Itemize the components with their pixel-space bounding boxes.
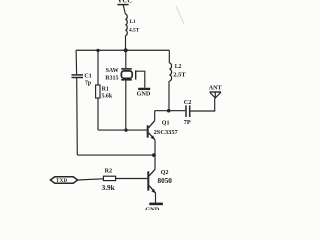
svg-text:2SC3357: 2SC3357	[154, 129, 179, 136]
wire L2 branch down	[168, 50, 170, 63]
svg-text:3.9k: 3.9k	[102, 184, 115, 192]
svg-text:L2: L2	[175, 64, 182, 70]
svg-text:C2: C2	[184, 99, 192, 106]
wire Q2 collector up	[154, 155, 156, 169]
svg-text:Q2: Q2	[161, 170, 169, 176]
resistor R1	[96, 85, 100, 98]
transistor Q2	[149, 169, 155, 176]
svg-text:8050: 8050	[158, 177, 173, 185]
svg-text:ANT: ANT	[209, 86, 222, 92]
Q2 emitter arrowhead	[151, 189, 155, 193]
node junction L1/top rail	[124, 48, 128, 52]
scan smudge	[176, 6, 184, 24]
svg-text:4.5T: 4.5T	[129, 28, 140, 34]
node junction emitter/lower rail	[152, 153, 156, 157]
antenna ANT	[210, 91, 221, 93]
wire R2 to Q2 base	[116, 178, 148, 180]
node junction L2/collector rail	[167, 109, 171, 113]
wire electrode to ground	[136, 71, 145, 88]
svg-text:SAW: SAW	[106, 68, 119, 74]
node junction SAW/base rail	[124, 128, 127, 131]
capacitor C1	[72, 74, 84, 76]
wire C1 bottom down	[76, 78, 79, 155]
wire L1 to top rail	[125, 36, 127, 51]
svg-text:GND: GND	[137, 90, 151, 97]
SAW case electrode	[135, 70, 137, 79]
wire base rail	[98, 129, 147, 131]
wire TXD to R2	[78, 179, 104, 180]
svg-text:5.6k: 5.6k	[102, 94, 113, 100]
transistor Q1	[147, 125, 149, 137]
wire top rail	[76, 49, 169, 51]
svg-text:C1: C1	[84, 73, 91, 79]
power VCC	[117, 4, 128, 6]
svg-text:VCC: VCC	[118, 0, 133, 5]
svg-text:7p: 7p	[85, 81, 91, 87]
capacitor C2	[185, 105, 187, 117]
SAW resonator R315	[121, 68, 132, 70]
resistor R2	[103, 176, 115, 180]
svg-text:R1: R1	[102, 87, 109, 93]
svg-text:TXD: TXD	[56, 179, 68, 184]
svg-text:7P: 7P	[184, 119, 191, 126]
svg-text:L1: L1	[130, 19, 136, 25]
wire collector rail	[155, 110, 186, 112]
svg-text:R315: R315	[105, 75, 118, 81]
wire VCC to L1	[123, 5, 125, 14]
wire C1 branch down	[75, 50, 78, 74]
node junction R1/top rail	[96, 49, 99, 52]
wire R1 to base rail	[97, 98, 99, 130]
inductor L2	[169, 63, 171, 81]
wire lower feedback rail	[77, 154, 154, 156]
input tag TXD	[50, 177, 77, 184]
wire Q1 emitter down	[154, 140, 156, 155]
svg-text:GND: GND	[145, 207, 160, 210]
svg-text:R2: R2	[105, 168, 113, 175]
svg-text:2.5T: 2.5T	[173, 72, 186, 79]
inductor L1	[125, 14, 127, 36]
wire SAW branch down	[125, 50, 127, 68]
svg-text:Q1: Q1	[162, 120, 170, 126]
wire R1 branch down	[97, 50, 99, 85]
wire C2 to antenna	[190, 98, 214, 111]
wire SAW to base rail	[125, 81, 127, 131]
ground (Q2 emitter)	[149, 203, 163, 206]
ground (SAW case)	[138, 88, 150, 90]
wire Q2 emitter down	[155, 193, 157, 203]
wire Q1 collector up	[154, 111, 156, 121]
wire L2 to collector rail	[168, 81, 170, 111]
Q1 emitter arrowhead	[151, 135, 155, 139]
